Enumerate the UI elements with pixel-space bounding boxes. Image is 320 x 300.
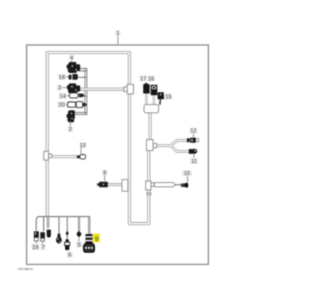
svg-text:1TP1-28E4 11: 1TP1-28E4 11 — [18, 267, 34, 271]
svg-text:1: 1 — [116, 31, 119, 37]
branch tube to connector 13 — [52, 155, 77, 158]
junction block on loop (top cluster branch) — [124, 87, 127, 92]
svg-text:6: 6 — [68, 253, 71, 259]
connector drop1 (19) — [34, 231, 39, 237]
wire drop 5 — [66, 217, 68, 240]
trunk tube below manifold — [149, 112, 152, 140]
connector 13 — [77, 155, 80, 158]
junction block for 13 branch — [44, 151, 52, 160]
wire connector20 to bus — [85, 104, 88, 106]
connector drop5 — [66, 232, 69, 236]
connector 4 — [67, 62, 81, 73]
svg-text:16: 16 — [148, 77, 154, 83]
connector drop2 (7) — [40, 232, 45, 238]
label 5 — [76, 242, 82, 248]
label 19 — [32, 244, 40, 250]
label 2 — [69, 121, 71, 126]
connector drop6 bullet — [77, 231, 81, 237]
junction block for 8 branch — [122, 180, 128, 192]
connector drop3 bullet — [47, 230, 51, 238]
fork tube to connectors 12 and 11 — [157, 140, 189, 151]
label 17 — [140, 75, 147, 81]
manifold junction (17/16/15 wires) — [144, 105, 159, 113]
tube drop 3 (main tube tail) — [47, 217, 50, 228]
connector 8 — [97, 182, 108, 188]
svg-text:4: 4 — [70, 56, 73, 62]
svg-text:11: 11 — [191, 159, 197, 165]
junction block for fork (12/11) — [147, 140, 157, 151]
tube drop 7 — [88, 217, 91, 234]
svg-text:15: 15 — [165, 95, 171, 101]
wire connector15 tail — [159, 99, 161, 105]
label 8 — [102, 170, 107, 176]
wire tube connector16 — [153, 95, 155, 105]
label 6 — [67, 252, 73, 258]
label 20 — [57, 102, 65, 108]
wire tube connector17 — [145, 94, 147, 106]
svg-text:10: 10 — [184, 171, 190, 177]
label 13 — [79, 142, 86, 147]
label 11 — [193, 154, 195, 158]
connector 10 — [181, 183, 186, 187]
wire connector18 to bus — [79, 76, 88, 78]
connector 20 — [68, 102, 76, 107]
label 3 — [57, 85, 62, 91]
bottom distribution wire — [36, 217, 90, 231]
sleeve to connector 10 — [154, 183, 174, 187]
connector 18 — [69, 75, 72, 80]
border frame — [27, 45, 209, 264]
connector drop4 — [58, 234, 61, 237]
label 12 — [189, 128, 197, 134]
svg-text:19: 19 — [32, 245, 38, 251]
connector 11 — [189, 149, 194, 154]
label 14 — [59, 93, 67, 99]
svg-text:18: 18 — [59, 75, 65, 81]
svg-text:14: 14 — [59, 94, 65, 100]
label 18 — [58, 74, 66, 80]
svg-text:7: 7 — [42, 245, 45, 251]
branch tube to connector 8 — [108, 183, 123, 186]
label 7 — [40, 244, 45, 250]
svg-text:2: 2 — [69, 127, 72, 133]
label 15 — [163, 95, 165, 97]
connector 17 — [143, 83, 150, 93]
tube drop 6 — [78, 217, 80, 232]
connector drop7 (big plug) — [85, 234, 92, 244]
connector 3 — [67, 83, 80, 93]
junction block for 10 branch — [146, 181, 154, 195]
label 9 highlighted — [92, 237, 94, 239]
harness main loop tube — [47, 53, 149, 224]
wire bus (top cluster, double line) — [85, 68, 87, 115]
wire drop 4 — [58, 217, 60, 234]
label 16 — [147, 76, 154, 82]
svg-text:3: 3 — [58, 86, 61, 92]
wire pair connector4 to bus — [78, 68, 88, 71]
branch tube top-cluster to loop — [79, 88, 125, 91]
connector 15 — [157, 92, 164, 99]
label 1 — [117, 36, 119, 44]
svg-text:5: 5 — [78, 243, 81, 249]
wire connector14 to bus — [84, 95, 88, 97]
wire pair connector2 to bus — [74, 112, 87, 114]
connector 2 — [67, 110, 75, 122]
svg-text:20: 20 — [58, 103, 64, 109]
connector 12 — [187, 138, 190, 142]
connector 16 — [151, 85, 158, 95]
label 10 — [182, 170, 192, 176]
label 4 — [71, 60, 73, 62]
connector 14 — [69, 93, 78, 98]
wire sleeve to connector 10 — [175, 184, 182, 186]
svg-text:17: 17 — [140, 76, 146, 82]
wire drop 2 — [43, 217, 45, 232]
